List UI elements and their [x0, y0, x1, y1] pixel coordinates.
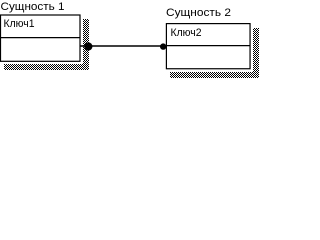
entity 1 shadow bottom band: [4, 64, 89, 70]
relationship line: [80, 45, 166, 47]
svg-text:Ключ2: Ключ2: [171, 27, 202, 39]
entity 1 shadow right band: [83, 19, 89, 70]
svg-text:Сущность 1: Сущность 1: [1, 1, 65, 13]
relationship dot at entity 1: [84, 42, 92, 50]
entity 2 divider: [166, 45, 250, 47]
entity 1 divider: [0, 37, 80, 39]
svg-text:Ключ1: Ключ1: [4, 18, 35, 30]
entity 1 box Сущность 1: [1, 15, 81, 61]
entity 2 shadow right band: [253, 28, 259, 78]
entity 2 shadow bottom band: [170, 72, 259, 78]
entity 2 box Сущность 2: [166, 24, 250, 69]
svg-text:Сущность 2: Сущность 2: [166, 7, 231, 19]
relationship dot at entity 2: [160, 43, 166, 49]
